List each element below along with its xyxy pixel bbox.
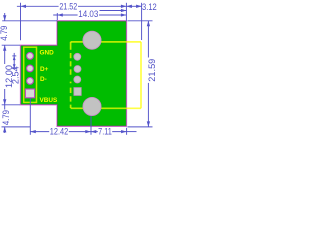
arrowhead 14.03 right	[121, 13, 127, 16]
dimension line 4.79 bottom (stub below board bottom)	[4, 127, 6, 133]
arrowhead 21.59 top	[147, 21, 150, 27]
svg-text:D-: D-	[40, 76, 47, 83]
dimension line 12.00	[4, 45, 6, 105]
dimension line 7.11 tail	[127, 131, 137, 133]
extension line: board main left edge extended up	[56, 13, 58, 20]
dimension text 4.79 bottom (rotated)	[3, 110, 10, 126]
svg-text:VBUS: VBUS	[40, 97, 58, 104]
connector pin pad 1	[74, 53, 81, 60]
svg-text:GND: GND	[40, 49, 55, 56]
arrowhead 21.52 left	[21, 5, 27, 8]
silkscreen box around left pad column	[24, 47, 37, 102]
svg-text:2.54: 2.54	[10, 66, 20, 84]
pad VBUS (square)	[25, 89, 34, 98]
arrowhead 2.54 bottom	[13, 64, 16, 68]
arrowhead 2.54 top	[13, 56, 16, 60]
svg-text:7.11: 7.11	[98, 126, 112, 137]
extension line: board right edge extended up	[125, 3, 127, 21]
dimension line 21.59	[147, 21, 149, 127]
extension line from mounting hole center down to bottom dimensions	[90, 107, 92, 135]
dimension line 2.54	[13, 53, 15, 69]
arrowhead 21.59 bottom	[147, 121, 150, 127]
dimension text 12.42	[49, 127, 69, 135]
svg-text:3.12: 3.12	[142, 1, 157, 12]
mounting hole top	[83, 31, 101, 49]
arrowhead 7.11 right	[121, 130, 127, 133]
pad D-	[27, 78, 34, 85]
arrowhead 12.42 right	[85, 130, 91, 133]
dimension text 12.00 (rotated)	[4, 64, 12, 89]
connector pin pad 3	[74, 76, 81, 83]
dimension line 14.03	[53, 14, 126, 16]
extension line: tab left edge extended up	[20, 3, 22, 40]
pad D+	[27, 65, 34, 72]
dimension line 4.79 bottom (stub below tab)	[4, 105, 6, 110]
arrowhead 12.00 top / 4.79 top lower	[3, 45, 6, 51]
extension line: board top edge extended left	[2, 20, 57, 22]
dimension text 21.59 (rotated)	[148, 58, 157, 83]
extension line: board bottom edge extended right	[128, 126, 153, 128]
dimension line 4.79 top (stub above board top)	[4, 13, 6, 21]
PCB board outline (green board, magenta edge)	[21, 21, 127, 127]
USB connector silkscreen left edge (hidden, dashed)	[70, 42, 72, 108]
extension line: board top edge extended right	[128, 20, 153, 22]
arrowhead 4.79 top upper	[3, 15, 6, 20]
arrowhead 3.12 left	[126, 5, 131, 8]
pad GND	[27, 53, 34, 60]
extension line: tab top edge extended left	[2, 44, 20, 46]
arrowhead 12.00 bottom / 4.79 bottom upper	[3, 99, 6, 105]
dimension line 12.42 / 7.11 (bottom)	[30, 131, 126, 133]
extension line: connector right edge extended up	[141, 3, 143, 40]
USB connector silkscreen right edge	[140, 42, 142, 108]
dimension line 3.12	[126, 5, 141, 7]
dimension text 7.11	[98, 127, 112, 135]
svg-text:4.79: 4.79	[0, 25, 9, 40]
extension tick at GND pad center	[12, 55, 16, 57]
dimension line 21.52	[17, 5, 127, 7]
extension tick at D+ pad center	[12, 67, 16, 69]
dimension text 21.52	[59, 3, 78, 11]
arrowhead 3.12 leader	[121, 9, 127, 12]
svg-text:21.59: 21.59	[147, 59, 157, 82]
arrowhead 3.12 right	[136, 5, 142, 8]
svg-text:4.79: 4.79	[0, 110, 11, 125]
USB connector silkscreen top edge	[71, 41, 141, 43]
connector pin pad 4 (square)	[74, 88, 81, 96]
svg-text:21.52: 21.52	[59, 2, 77, 12]
USB connector silkscreen bottom edge	[71, 107, 141, 109]
arrowhead 21.52 right	[121, 5, 127, 8]
extension line: tab bottom edge extended left	[2, 104, 20, 106]
svg-text:12.42: 12.42	[50, 126, 69, 137]
arrowhead 7.11 left	[91, 130, 97, 133]
svg-text:14.03: 14.03	[78, 8, 98, 19]
dimension text 14.03	[78, 10, 99, 18]
mounting hole bottom	[83, 97, 101, 115]
extension line: board bottom edge extended left	[2, 126, 31, 128]
extension line: board right edge extended down	[126, 128, 128, 135]
arrowhead 14.03 left	[57, 13, 63, 16]
arrowhead 4.79 bottom lower	[3, 127, 6, 132]
dimension leader for 3.12 (upper stub)	[100, 10, 127, 12]
svg-text:D+: D+	[40, 66, 49, 73]
extension line: VBUS pad column extended down	[29, 98, 31, 135]
connector pin pad 2	[74, 66, 81, 73]
arrowhead 12.42 left	[30, 130, 36, 133]
dimension text 4.79 top (rotated)	[1, 26, 8, 42]
